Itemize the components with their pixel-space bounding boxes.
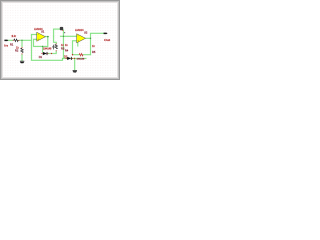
svg-text:Out: Out [104, 38, 110, 42]
svg-text:1N4148: 1N4148 [77, 59, 85, 61]
svg-text:U1: U1 [41, 29, 45, 33]
svg-text:D1: D1 [39, 55, 43, 59]
svg-text:R4: R4 [65, 48, 69, 52]
svg-text:LM324: LM324 [75, 28, 84, 32]
svg-text:R2: R2 [15, 49, 19, 53]
svg-text:D2: D2 [64, 54, 68, 58]
svg-text:R5: R5 [92, 50, 96, 54]
svg-text:R1: R1 [10, 43, 14, 47]
svg-text:U2: U2 [84, 31, 88, 35]
svg-text:1N4148: 1N4148 [43, 48, 52, 51]
